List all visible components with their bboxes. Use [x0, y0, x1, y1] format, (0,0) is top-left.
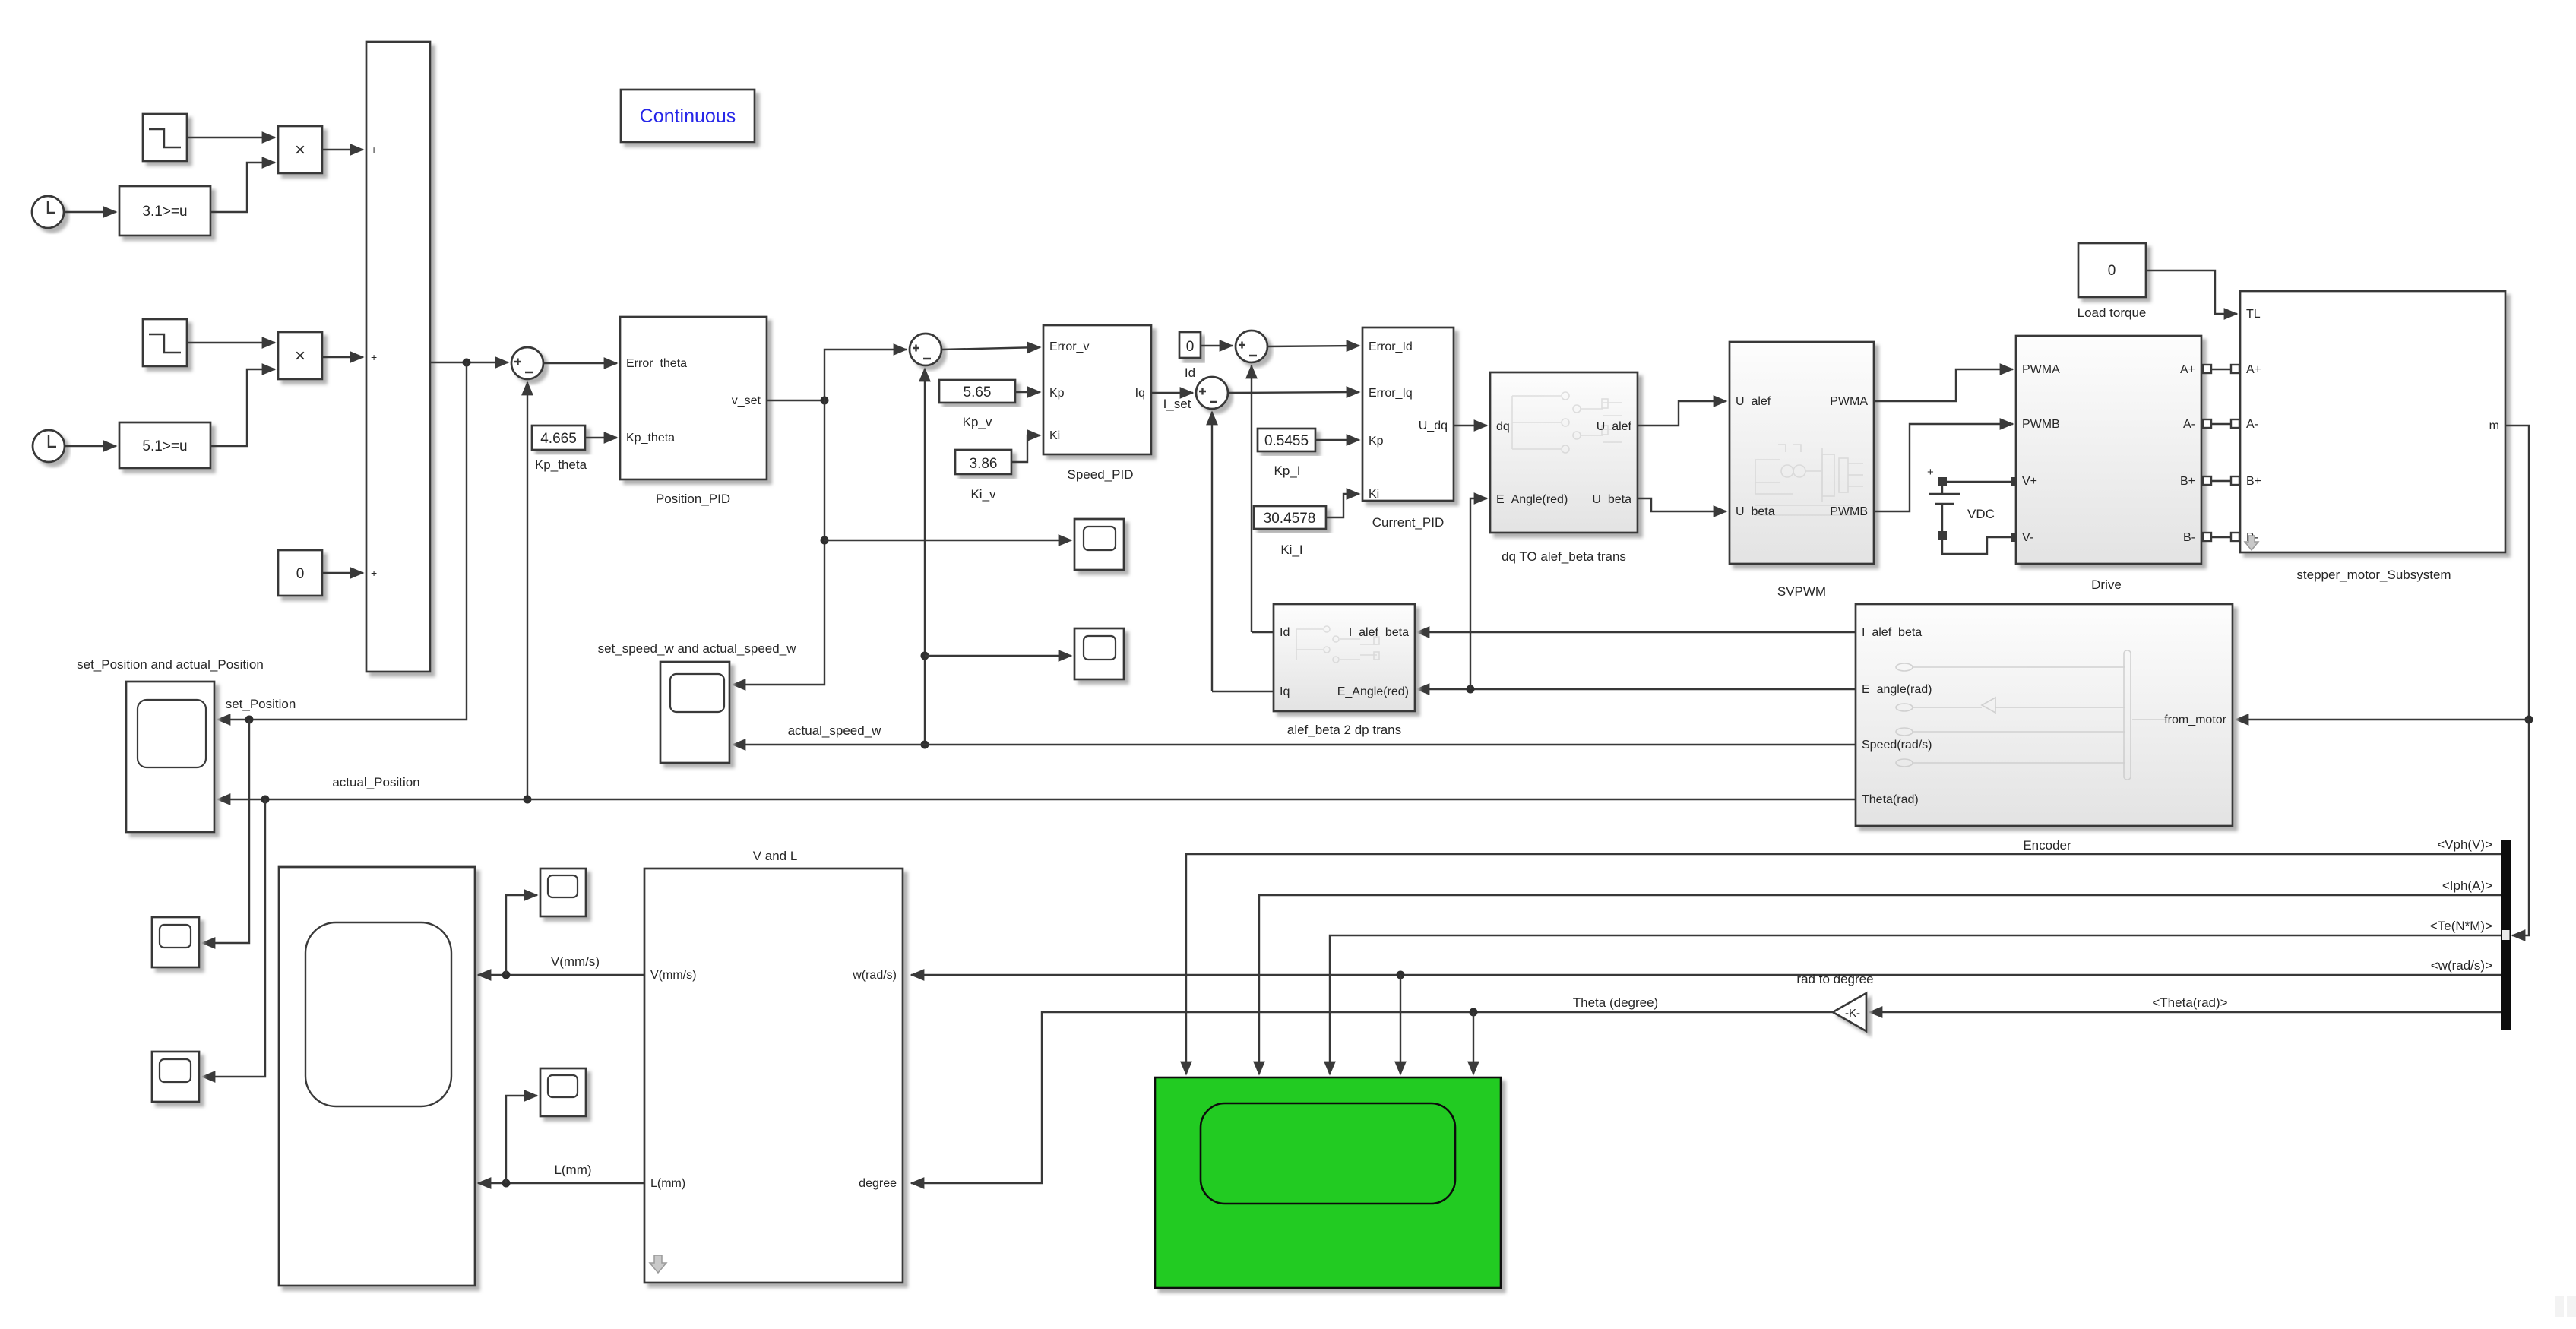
wire Constant to Sum: [322, 572, 363, 574]
svg-text:Theta(rad): Theta(rad): [1862, 793, 1919, 806]
wire V(mm/s) output to big scope and scope V: [478, 974, 644, 976]
constant 0: [278, 550, 322, 596]
svg-text:U_alef: U_alef: [1736, 395, 1771, 408]
constant 30.4578: [1254, 506, 1326, 529]
svg-text:L(mm): L(mm): [554, 1163, 591, 1177]
svg-text:Theta (degree): Theta (degree): [1573, 995, 1658, 1010]
bus selector black bar: [2501, 840, 2511, 1030]
svg-text:0: 0: [2108, 263, 2116, 279]
wire Theta(rad) line to gain: [1869, 1011, 2501, 1013]
svg-text:×: ×: [295, 140, 305, 160]
svg-text:Encoder: Encoder: [2023, 838, 2071, 853]
wire actual_Position feedback up into Sum_theta: [527, 382, 528, 799]
wire Ki_I to Current_PID: [1326, 494, 1359, 517]
wire Clock to Compare: [64, 211, 116, 213]
constant 5.65: [939, 380, 1015, 403]
svg-text:v_set: v_set: [732, 394, 761, 407]
wire U_beta to SVPWM: [1638, 498, 1726, 511]
svg-text:VDC: VDC: [1967, 507, 1995, 521]
svg-text:V-: V-: [2022, 531, 2033, 544]
subsystem Current_PID: [1362, 328, 1454, 501]
svg-text:-K-: -K-: [1845, 1007, 1860, 1020]
svg-text:3.1>=u: 3.1>=u: [142, 204, 187, 220]
wire Product2 to Sum: [322, 356, 363, 358]
scope Scope2 mid: [1074, 519, 1124, 570]
svg-text:A-: A-: [2183, 418, 2195, 431]
constant 3.86: [955, 450, 1011, 474]
svg-text:+: +: [1927, 466, 1934, 479]
wire Kp_I to Current_PID: [1315, 439, 1359, 441]
wire Sum_v to Speed_PID: [941, 347, 1040, 350]
wire Ki_v to Speed_PID: [1011, 435, 1040, 462]
svg-text:Ki_v: Ki_v: [970, 487, 996, 502]
svg-text:B+: B+: [2180, 475, 2195, 488]
compare block 3.1>=u: [119, 186, 210, 236]
svg-text:<Iph(A)>: <Iph(A)>: [2442, 878, 2492, 893]
wire v_set branch to Scope2: [824, 540, 1071, 541]
svg-text:Speed(rad/s): Speed(rad/s): [1862, 739, 1932, 752]
battery VDC: [1927, 466, 1995, 540]
svg-text:U_dq: U_dq: [1419, 419, 1448, 432]
svg-text:m: m: [2489, 419, 2499, 432]
svg-text:+: +: [371, 144, 377, 156]
wire PWMB to Drive: [1874, 424, 2013, 511]
svg-text:<Vph(V)>: <Vph(V)>: [2437, 837, 2492, 852]
scope small Scope5: [152, 1052, 199, 1102]
svg-text:+: +: [371, 567, 377, 579]
wire actual_speed_w branch to scope: [733, 744, 925, 745]
svg-text:L(mm): L(mm): [650, 1177, 685, 1190]
svg-text:Load torque: Load torque: [2078, 305, 2147, 320]
svg-text:U_beta: U_beta: [1736, 505, 1775, 518]
subsystem alef_beta 2 dp trans: [1274, 604, 1415, 711]
wire Theta degree to V and L degree with display branch: [911, 1012, 1833, 1183]
svg-text:set_Position and actual_Positi: set_Position and actual_Position: [77, 657, 264, 672]
wire Theta feedback actual_Position: [217, 799, 1856, 800]
svg-text:PWMA: PWMA: [1830, 395, 1868, 408]
svg-text:0: 0: [1186, 339, 1195, 355]
svg-text:rad to degree: rad to degree: [1796, 972, 1873, 986]
wire Load torque to TL: [2146, 271, 2237, 314]
svg-text:actual_Position: actual_Position: [332, 775, 419, 789]
wire speed feedback vertical into Sum_v: [924, 369, 926, 745]
wire U_alef to SVPWM: [1638, 401, 1726, 426]
svg-text:Error_theta: Error_theta: [626, 357, 687, 370]
faint watermark bottom right: [2555, 1296, 2576, 1317]
svg-text:0: 0: [296, 566, 305, 582]
svg-text:B-: B-: [2183, 531, 2195, 544]
wire speed feedback branch to Scope3: [925, 655, 1071, 657]
svg-text:dq TO alef_beta trans: dq TO alef_beta trans: [1502, 549, 1626, 564]
wire Id constant to Sum_id: [1201, 345, 1233, 346]
svg-text:5.1>=u: 5.1>=u: [142, 438, 187, 454]
wire I_alef_beta feedback to alef_beta 2 dp trans: [1416, 631, 1856, 633]
svg-text:0.5455: 0.5455: [1264, 433, 1309, 449]
wire Step1 to Product2: [187, 342, 275, 343]
constant 0 Id: [1179, 332, 1201, 358]
wire U_dq to dq block: [1454, 425, 1487, 426]
wire Compare2 to Product2: [210, 369, 275, 446]
svg-text:E_angle(rad): E_angle(rad): [1862, 683, 1932, 696]
svg-text:E_Angle(red): E_Angle(red): [1496, 493, 1568, 506]
svg-text:Kp: Kp: [1369, 435, 1384, 448]
svg-text:V and L: V and L: [753, 849, 798, 863]
svg-text:V+: V+: [2022, 475, 2037, 488]
wire alef Id output to Sum_id feedback: [1252, 631, 1274, 633]
wire Sum to Sum_theta with set_Position branch: [430, 362, 508, 363]
wire w(rad/s) line to V and L with display branch: [911, 974, 2501, 976]
svg-text:E_Angle(red): E_Angle(red): [1337, 685, 1409, 698]
svg-text:Speed_PID: Speed_PID: [1068, 467, 1134, 482]
clock Clock1: [33, 430, 65, 462]
svg-text:Iq: Iq: [1135, 387, 1145, 400]
scope Scope3 mid: [1074, 628, 1124, 679]
svg-text:Iq: Iq: [1280, 685, 1290, 698]
svg-text:5.65: 5.65: [964, 384, 992, 400]
wire Vph(V) line to display: [1186, 854, 2501, 1074]
wire battery plus to V+: [1947, 481, 2016, 483]
wire battery minus to V-: [1942, 537, 2016, 554]
wire Sum_id to Error_Id: [1267, 346, 1359, 346]
product block Product2: [278, 332, 322, 379]
svg-text:actual_speed_w: actual_speed_w: [788, 723, 882, 738]
wire Iq to Sum_iset: [1151, 392, 1193, 394]
svg-text:3.86: 3.86: [970, 456, 998, 472]
wire Sum_theta to Position_PID: [543, 362, 617, 364]
wire Step to Product: [187, 137, 275, 138]
product block Product1: [278, 126, 322, 173]
subsystem stepper_motor_Subsystem: [2240, 291, 2505, 552]
wire Iq feedback up into Sum_iset: [1211, 412, 1213, 691]
svg-text:I_alef_beta: I_alef_beta: [1349, 626, 1409, 639]
svg-text:from_motor: from_motor: [2164, 714, 2226, 726]
svg-text:set_Position: set_Position: [226, 697, 296, 711]
svg-text:A+: A+: [2180, 363, 2195, 376]
svg-text:V(mm/s): V(mm/s): [650, 969, 696, 982]
physical wires A+ A- B+ B-: [2201, 365, 2240, 541]
constant 0.5455: [1258, 429, 1315, 451]
svg-text:Error_Id: Error_Id: [1369, 340, 1413, 353]
subsystem Encoder: [1856, 604, 2233, 826]
svg-text:×: ×: [295, 346, 305, 366]
svg-text:Drive: Drive: [2091, 577, 2122, 592]
svg-text:w(rad/s): w(rad/s): [852, 969, 897, 982]
subsystem Position_PID: [620, 317, 767, 479]
sum circle Sum_v: [910, 334, 941, 365]
sum circle Sum_id: [1236, 331, 1267, 362]
scope V small: [540, 869, 586, 916]
svg-text:set_speed_w and actual_speed_w: set_speed_w and actual_speed_w: [598, 641, 797, 656]
svg-text:V(mm/s): V(mm/s): [551, 954, 600, 969]
wire Kp_theta constant to Position_PID: [585, 437, 617, 438]
svg-text:Ki: Ki: [1369, 488, 1379, 501]
svg-text:SVPWM: SVPWM: [1777, 584, 1826, 599]
wire Te(N*M) line to display: [1330, 935, 2501, 1074]
wire Kp_v to Speed_PID: [1015, 391, 1040, 393]
svg-text:Position_PID: Position_PID: [656, 492, 730, 506]
svg-text:<Theta(rad)>: <Theta(rad)>: [2152, 995, 2227, 1010]
wire Clock1 to Compare2: [65, 445, 116, 447]
clock Clock: [32, 196, 64, 228]
wire v_set out with branches: [767, 400, 824, 401]
constant Load torque: [2078, 243, 2146, 297]
wire Id feedback up into Sum_id: [1251, 365, 1252, 632]
svg-text:Kp_theta: Kp_theta: [626, 432, 675, 445]
display green block: [1155, 1077, 1501, 1288]
step source Step1: [143, 319, 187, 366]
wire Speed feedback to actual_speed_w line: [925, 744, 1856, 745]
svg-text:degree: degree: [859, 1177, 897, 1190]
svg-text:I_alef_beta: I_alef_beta: [1862, 626, 1922, 639]
svg-text:PWMA: PWMA: [2022, 363, 2060, 376]
svg-text:stepper_motor_Subsystem: stepper_motor_Subsystem: [2296, 568, 2451, 582]
sum block tall rectangle: [366, 42, 430, 672]
svg-text:Error_Iq: Error_Iq: [1369, 387, 1413, 400]
svg-text:A-: A-: [2246, 418, 2258, 431]
constant 4.665: [532, 426, 585, 450]
sum circle Sum_iset: [1196, 377, 1228, 409]
svg-text:U_alef: U_alef: [1597, 420, 1632, 433]
svg-text:PWMB: PWMB: [1830, 505, 1868, 518]
wire from_motor branch to Encoder: [2236, 719, 2529, 720]
svg-text:Ki_I: Ki_I: [1280, 543, 1302, 557]
svg-text:B+: B+: [2246, 475, 2261, 488]
wire L(mm) output to big scope and scope L: [478, 1182, 644, 1184]
scope big XY: [279, 867, 475, 1286]
svg-text:Error_v: Error_v: [1049, 340, 1089, 353]
wire m output to bus selector and from_motor: [2505, 426, 2529, 935]
svg-text:Ki: Ki: [1049, 429, 1060, 442]
svg-text:<Te(N*M)>: <Te(N*M)>: [2430, 919, 2492, 933]
wire alef Iq output to Sum_iset feedback: [1212, 691, 1274, 692]
annotation Continuous: [621, 90, 755, 142]
svg-text:Id: Id: [1280, 626, 1290, 639]
svg-text:I_set: I_set: [1163, 397, 1191, 411]
scope L small: [540, 1068, 586, 1116]
scope set_Position and actual_Position: [126, 682, 214, 832]
gain rad to degree: [1833, 993, 1866, 1031]
wire Iph(A) line to display: [1259, 895, 2501, 1074]
svg-text:<w(rad/s)>: <w(rad/s)>: [2431, 958, 2492, 973]
subsystem Drive: [2016, 336, 2201, 564]
subsystem dq TO alef_beta trans: [1490, 372, 1638, 533]
compare block 5.1>=u: [119, 422, 210, 468]
svg-text:Kp_theta: Kp_theta: [535, 457, 587, 472]
svg-text:A+: A+: [2246, 363, 2261, 376]
wire Sum_iset to Error_Iq: [1228, 392, 1359, 393]
svg-text:+: +: [371, 351, 377, 363]
svg-text:Id: Id: [1185, 365, 1195, 380]
svg-text:4.665: 4.665: [540, 431, 577, 447]
subsystem V and L: [644, 869, 903, 1283]
step source Step: [143, 114, 187, 161]
svg-text:Kp_I: Kp_I: [1274, 464, 1301, 478]
sum circle Sum_theta: [511, 347, 543, 379]
wire Product1 to Sum: [322, 149, 363, 150]
svg-text:Kp_v: Kp_v: [963, 415, 992, 429]
subsystem SVPWM: [1729, 342, 1874, 564]
scope small Scope4: [152, 917, 199, 967]
svg-text:Current_PID: Current_PID: [1372, 515, 1444, 530]
svg-text:30.4578: 30.4578: [1264, 511, 1316, 527]
svg-text:U_beta: U_beta: [1592, 493, 1631, 506]
svg-text:TL: TL: [2246, 308, 2261, 321]
wire Compare1 to Product1: [210, 163, 275, 212]
svg-text:PWMB: PWMB: [2022, 418, 2060, 431]
scope set_speed_w and actual_speed_w: [660, 662, 729, 763]
wire E_angle feedback with branch to dq and alef_beta blocks: [1416, 688, 1856, 690]
subsystem Speed_PID: [1043, 325, 1151, 454]
svg-text:dq: dq: [1496, 420, 1510, 433]
svg-text:Continuous: Continuous: [640, 106, 736, 127]
svg-text:alef_beta 2 dp trans: alef_beta 2 dp trans: [1287, 723, 1401, 737]
svg-text:Kp: Kp: [1049, 387, 1065, 400]
wire PWMA to Drive: [1874, 369, 2013, 401]
